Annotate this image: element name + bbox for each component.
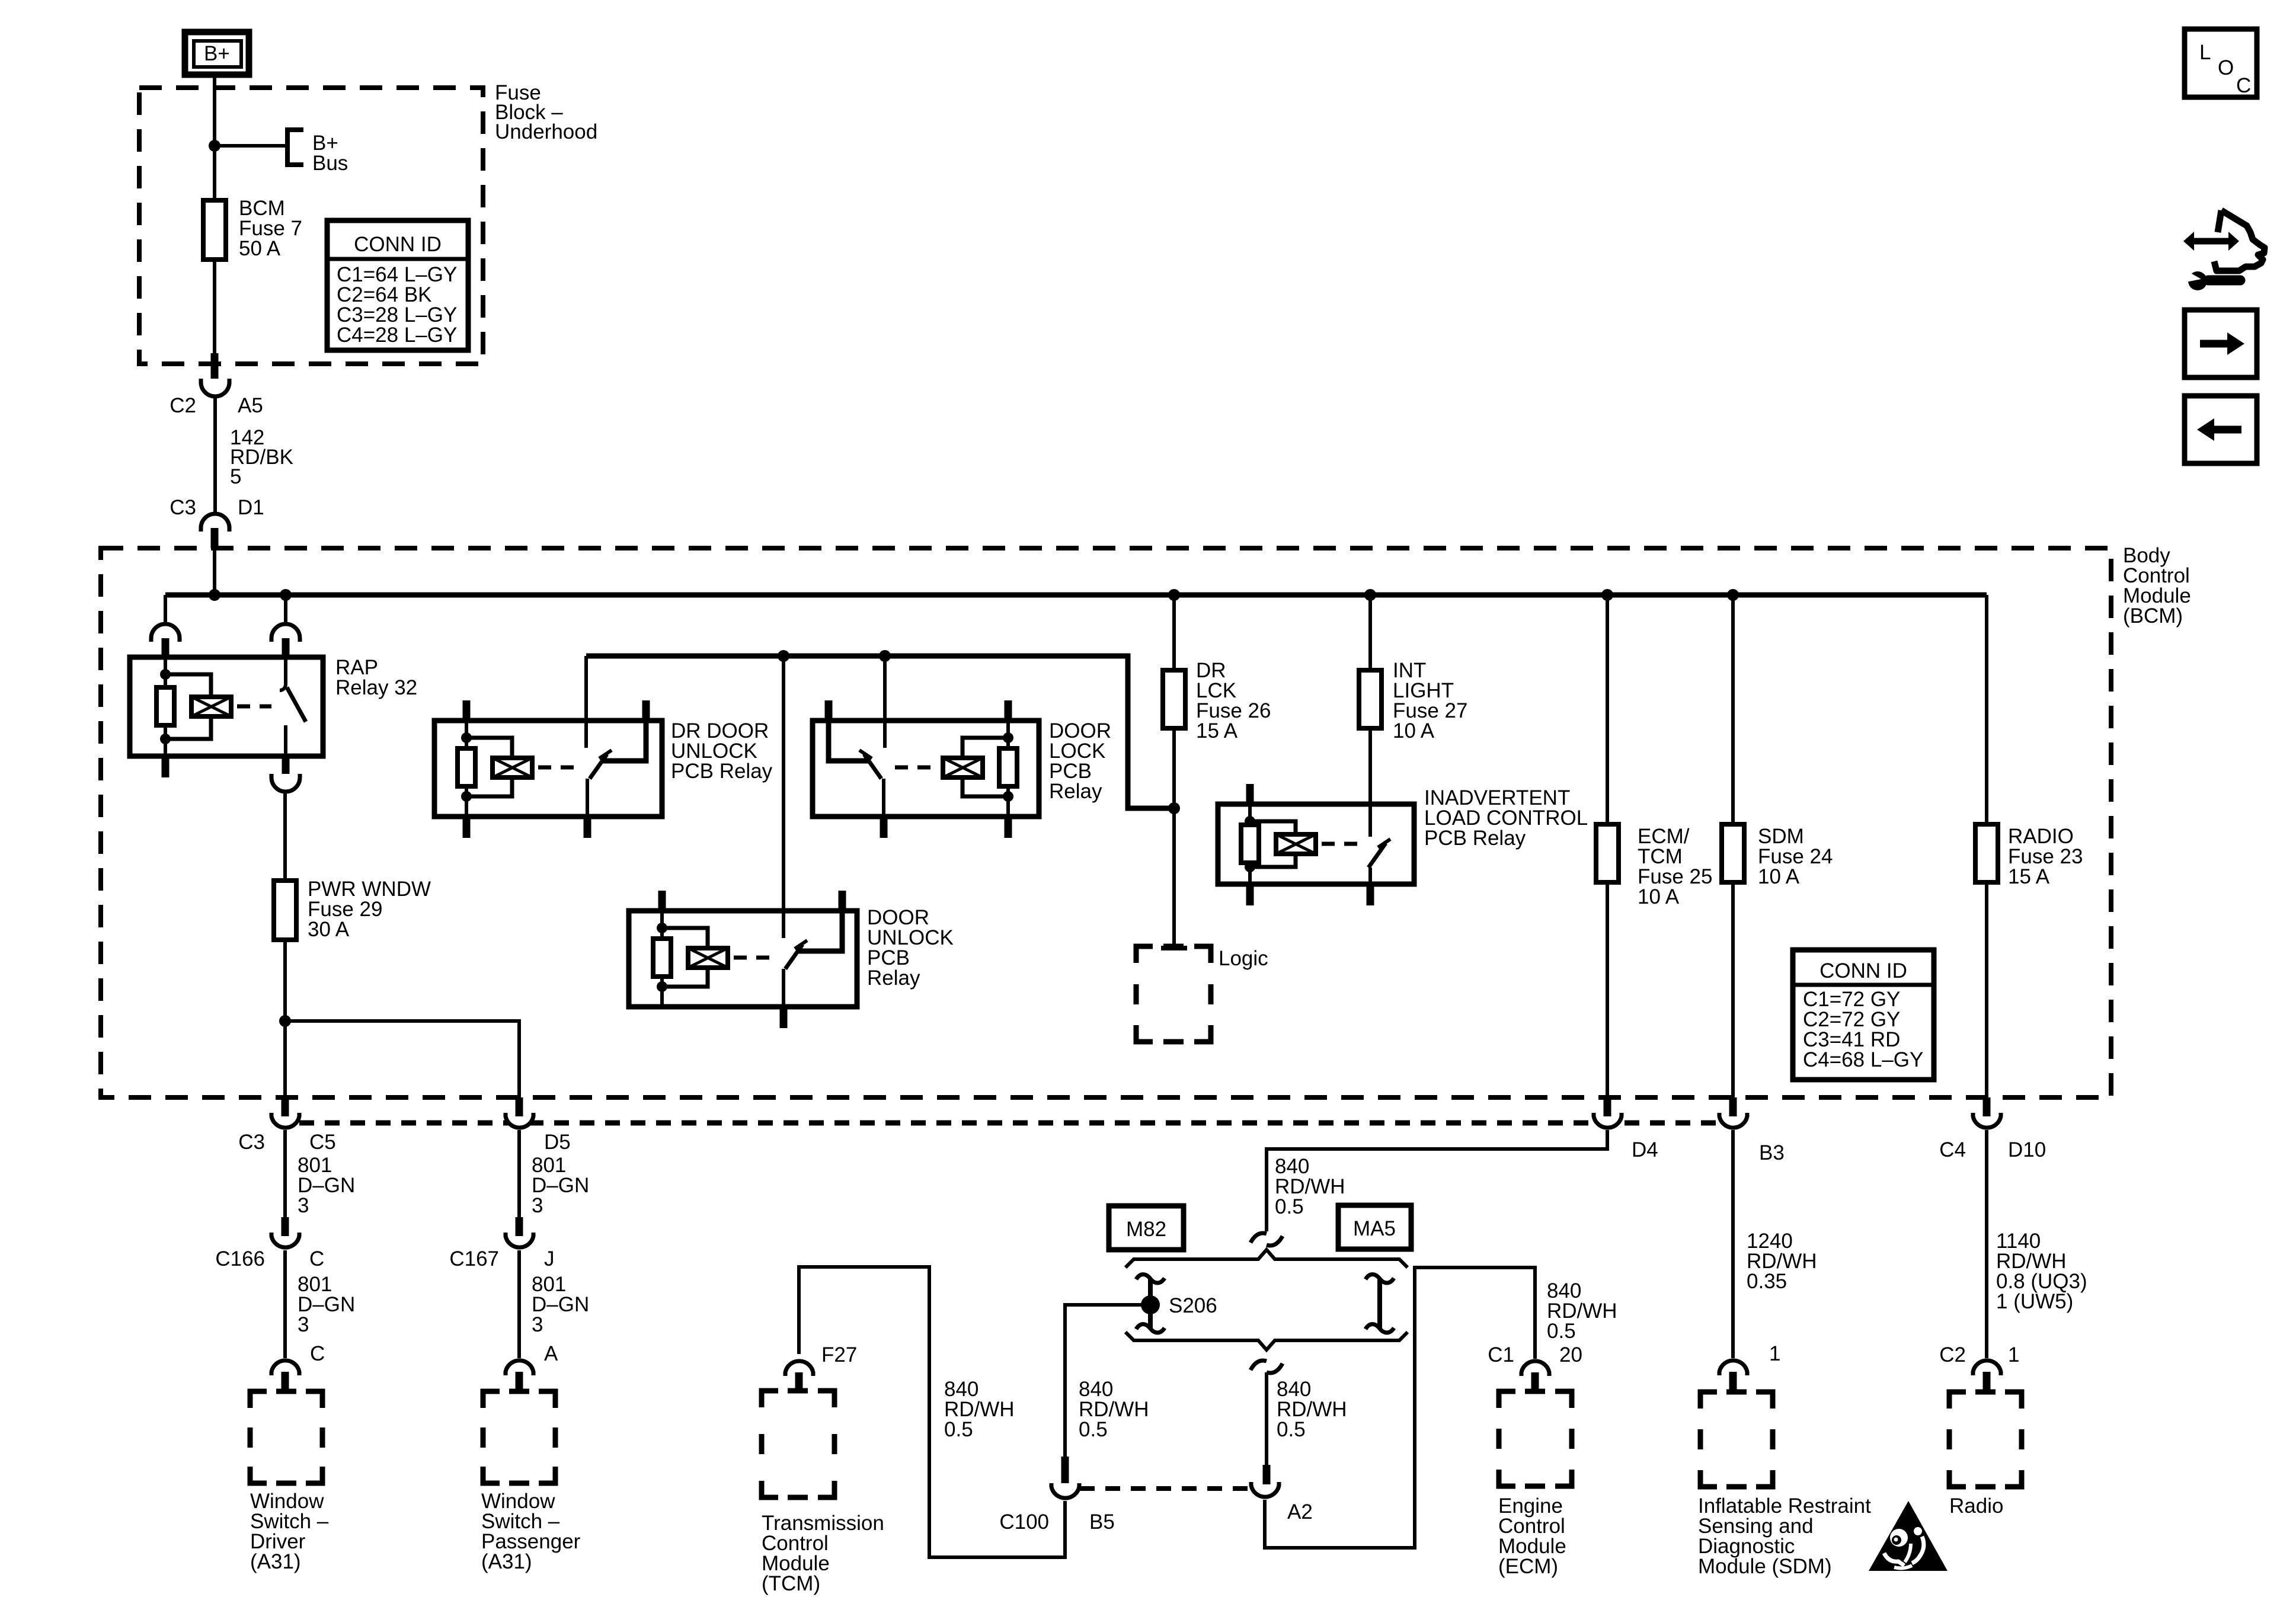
svg-text:0.5: 0.5 [1277, 1418, 1306, 1441]
DOOR LOCK mech link [895, 766, 937, 770]
DR DOOR UNLOCK mech link [538, 766, 582, 770]
svg-text:C2: C2 [1939, 1343, 1966, 1366]
RAP coil pin wire [164, 657, 167, 756]
connector D5 [506, 1113, 533, 1128]
connector cup RAP out [271, 774, 300, 792]
wire 801 D-GN lower right [517, 1250, 521, 1358]
svg-text:B+: B+ [204, 42, 230, 65]
wire fuse29 to C3/C5 [283, 940, 287, 1097]
wire fuse 25 drop [1606, 595, 1609, 824]
INADVERTENT bottom stubs [1246, 884, 1254, 905]
node bus/RAP junction [280, 589, 292, 601]
resistor RAP [156, 687, 174, 725]
wire fuse25 to D4 [1606, 882, 1609, 1097]
CONN ID table (BCM) [1793, 950, 1934, 1080]
svg-text:0.35: 0.35 [1747, 1270, 1787, 1293]
svg-text:A: A [544, 1342, 558, 1365]
wire D4 to splice bundle [1267, 1130, 1607, 1231]
svg-text:D1: D1 [238, 496, 264, 519]
INADVERTENT coil pin [1248, 804, 1252, 884]
wire fuse 24 drop [1731, 595, 1735, 824]
connector C2/A5 cup [201, 379, 229, 396]
svg-text:0.5: 0.5 [1079, 1418, 1108, 1441]
svg-text:0.5: 0.5 [944, 1418, 973, 1441]
svg-text:(BCM): (BCM) [2123, 604, 2183, 628]
svg-text:C4=28 L–GY: C4=28 L–GY [337, 324, 457, 347]
wire 801 D-GN upper right [517, 1130, 521, 1217]
switch DOOR LOCK [859, 750, 884, 817]
svg-text:(ECM): (ECM) [1498, 1555, 1558, 1578]
svg-text:CONN ID: CONN ID [1819, 959, 1907, 982]
resistor INADVERTENT [1241, 825, 1259, 863]
wire fuse 26 drop [1172, 595, 1176, 670]
relay DR DOOR UNLOCK PCB box [434, 721, 662, 817]
coil INADVERTENT [1276, 834, 1316, 854]
svg-text:C: C [309, 1247, 324, 1270]
svg-text:O: O [2218, 56, 2234, 79]
CONN ID table (fuse block) [327, 220, 468, 350]
connector cap RAP pin1 [151, 624, 180, 642]
node bus/fuse24 junction [1727, 589, 1739, 601]
svg-text:C2: C2 [170, 394, 196, 417]
svg-text:Bus: Bus [312, 152, 348, 175]
connector C167 [506, 1233, 533, 1247]
wire bundle to A2 [1265, 1372, 1268, 1465]
wire fuse23 to C4 [1985, 882, 1988, 1097]
INADVERTENT loop [1250, 821, 1296, 867]
DOOR LOCK loop [962, 738, 1008, 796]
svg-text:C100: C100 [999, 1510, 1049, 1534]
svg-text:A2: A2 [1287, 1500, 1313, 1523]
svg-text:3: 3 [532, 1194, 543, 1217]
DR DOOR UNLOCK pin stubs top [463, 700, 471, 721]
B+ terminal [185, 32, 249, 75]
DOOR UNLOCK L-wire [798, 911, 842, 951]
svg-text:Underhood: Underhood [495, 120, 597, 143]
DOOR UNLOCK coil pin [660, 911, 664, 1007]
relay INADVERTENT LOAD CONTROL box [1218, 804, 1414, 884]
svg-text:C5: C5 [309, 1131, 336, 1154]
airbag caution icon [1869, 1501, 1948, 1571]
wire bus to RAP pin 1 [164, 595, 167, 624]
data link icon [2183, 210, 2265, 271]
svg-text:3: 3 [298, 1194, 309, 1217]
wire sub-bus to DOOR UNLOCK switch [782, 656, 785, 938]
svg-text:30 A: 30 A [308, 918, 350, 941]
connector C3/C5 [271, 1113, 299, 1128]
svg-text:10 A: 10 A [1638, 885, 1680, 908]
fuse INT LIGHT Fuse 27 10 A [1359, 670, 1382, 728]
MA5 tag [1338, 1205, 1411, 1249]
connector D4 [1594, 1113, 1622, 1128]
svg-text:Relay: Relay [1049, 780, 1102, 803]
svg-text:50 A: 50 A [239, 237, 281, 260]
SDM dashed box [1700, 1392, 1773, 1487]
DOOR LOCK L-wire [829, 721, 869, 761]
wire A2 to ECM [1265, 1267, 1535, 1548]
svg-text:PCB Relay: PCB Relay [671, 760, 773, 783]
DR DOOR UNLOCK coil pin [465, 721, 468, 817]
node S206 [1141, 1295, 1160, 1314]
svg-text:1: 1 [1769, 1342, 1780, 1365]
LOC tag [2185, 29, 2257, 97]
wire main bus [165, 593, 1987, 598]
wire bus to RAP pin 2 [284, 595, 287, 624]
resistor DOOR UNLOCK [653, 939, 671, 977]
wire branch to D5 [285, 1021, 519, 1097]
connector C3/D1 stub [211, 528, 219, 548]
svg-text:C3: C3 [238, 1131, 265, 1154]
node bus/fuse26 junction [1168, 589, 1180, 601]
ECM dashed box [1499, 1391, 1572, 1486]
connector row dotted line [299, 1121, 1719, 1126]
svg-text:1 (UW5): 1 (UW5) [1996, 1290, 2073, 1313]
fuse DR LCK Fuse 26 15 A [1163, 670, 1185, 728]
switch RAP [280, 657, 306, 756]
wire 142 RD/BK [213, 396, 217, 514]
Window Switch Driver dashed box [250, 1391, 322, 1483]
wire B5 riser to S206 [1065, 1305, 1150, 1457]
svg-text:A5: A5 [238, 394, 263, 417]
DR DOOR UNLOCK L-wire [602, 721, 646, 761]
wire B3 to SDM [1731, 1130, 1735, 1358]
INADVERTENT mech link [1322, 842, 1363, 846]
splice S206 bar [1136, 1275, 1165, 1333]
fuse block underhood dashed box [139, 88, 483, 364]
fuse RADIO Fuse 23 15 A [1975, 824, 1998, 882]
DOOR LOCK pin stubs top [825, 700, 833, 721]
relay DOOR LOCK PCB box [813, 721, 1039, 817]
back arrow tag [2185, 396, 2257, 463]
wire into BCM [213, 548, 216, 595]
fuse PWR WNDW Fuse 29 30 A [274, 881, 296, 940]
DOOR LOCK bottom stubs [880, 817, 888, 838]
svg-text:B5: B5 [1089, 1510, 1115, 1534]
wire fuse 27 drop [1368, 595, 1372, 670]
wire break lower [1251, 1361, 1267, 1370]
wire sub-bus to DR DOOR UNLOCK switch [584, 656, 588, 748]
svg-text:L: L [2199, 41, 2211, 64]
DOOR UNLOCK mech link [734, 956, 778, 960]
svg-text:Relay 32: Relay 32 [335, 676, 417, 699]
wire 801 D-GN lower left [283, 1250, 287, 1358]
node fuse29 branch [279, 1015, 291, 1027]
svg-text:MA5: MA5 [1353, 1217, 1396, 1240]
svg-text:C: C [310, 1342, 325, 1365]
coil DR DOOR UNLOCK [493, 758, 532, 777]
coil DOOR LOCK [943, 758, 983, 777]
forward arrow tag [2185, 310, 2257, 377]
wire to B+ bus [215, 144, 287, 148]
M82 tag [1109, 1206, 1184, 1250]
resistor DR DOOR UNLOCK [458, 748, 475, 786]
svg-text:C166: C166 [215, 1247, 265, 1270]
svg-text:M82: M82 [1126, 1218, 1166, 1241]
wire 801 D-GN upper left [283, 1130, 287, 1217]
connector C166 [271, 1233, 299, 1247]
switch DR DOOR UNLOCK [587, 750, 612, 817]
svg-text:C3: C3 [170, 496, 196, 519]
DOOR UNLOCK bottom stub [780, 1007, 788, 1028]
svg-text:0.5: 0.5 [1275, 1195, 1304, 1218]
wire fuse 23 drop [1985, 595, 1988, 824]
DR DOOR UNLOCK bottom stubs [463, 817, 471, 838]
svg-text:C4: C4 [1939, 1138, 1966, 1161]
DOOR UNLOCK loop [662, 928, 708, 987]
svg-text:Relay: Relay [867, 966, 920, 990]
BCM dashed box [101, 548, 2111, 1097]
svg-text:(TCM): (TCM) [762, 1572, 820, 1595]
svg-text:1: 1 [2008, 1343, 2019, 1366]
svg-text:5: 5 [230, 465, 241, 488]
svg-text:C1: C1 [1488, 1343, 1514, 1366]
splice bundle bottom brace [1125, 1332, 1408, 1350]
Logic dashed box [1136, 946, 1268, 1042]
wire TCM F27 loop [799, 1267, 1065, 1557]
fuse BCM Fuse 7 50 A [203, 200, 226, 260]
node bus/C3 junction [209, 589, 220, 601]
svg-text:B3: B3 [1759, 1141, 1785, 1164]
splice bundle right bar [1366, 1275, 1394, 1333]
connector B3 [1719, 1113, 1747, 1128]
resistor DOOR LOCK [999, 748, 1017, 786]
svg-text:10 A: 10 A [1758, 865, 1800, 888]
connector C4/D10 [1973, 1113, 2001, 1128]
connector cap RAP pin2 [271, 624, 300, 642]
svg-text:Module (SDM): Module (SDM) [1698, 1555, 1832, 1578]
wire sub-bus to DOOR LOCK switch [883, 656, 887, 748]
wire C4 to radio [1985, 1130, 1988, 1358]
splice bundle top brace [1125, 1250, 1408, 1267]
switch INADVERTENT [1368, 839, 1390, 884]
TCM dashed box [762, 1391, 834, 1497]
relay RAP Relay 32 box [130, 657, 323, 756]
relay DOOR UNLOCK PCB box [629, 911, 857, 1007]
svg-text:3: 3 [532, 1313, 543, 1336]
INADVERTENT top stub [1246, 784, 1254, 804]
RAP pin3 stub (nc) [162, 756, 170, 777]
svg-text:CONN ID: CONN ID [354, 233, 442, 256]
svg-text:20: 20 [1559, 1343, 1582, 1366]
svg-text:3: 3 [298, 1313, 309, 1336]
svg-text:C: C [2236, 74, 2251, 97]
svg-text:0.5: 0.5 [1547, 1320, 1576, 1343]
svg-text:(A31): (A31) [481, 1550, 532, 1573]
wire B+ feed vertical [213, 75, 216, 353]
svg-text:D4: D4 [1632, 1138, 1658, 1161]
wire fuse26 to logic [1172, 728, 1176, 946]
svg-text:J: J [544, 1247, 555, 1270]
connector C2/A5 stub [211, 353, 219, 382]
fuse ECM/TCM Fuse 25 10 A [1596, 824, 1619, 882]
Radio dashed box [1949, 1392, 2022, 1487]
dashed C100 link [1080, 1486, 1250, 1491]
wrench icon [2183, 270, 2240, 290]
fuse SDM Fuse 24 10 A [1722, 824, 1744, 882]
DOOR UNLOCK pin stubs top [658, 891, 666, 911]
svg-text:15 A: 15 A [2008, 865, 2050, 888]
svg-text:D5: D5 [544, 1131, 571, 1154]
wire break upper [1251, 1233, 1267, 1243]
connector A2 [1251, 1482, 1279, 1497]
coil RAP [191, 697, 231, 716]
node fuse26 sub-bus junction [1168, 802, 1180, 814]
svg-text:Logic: Logic [1219, 947, 1268, 970]
svg-text:D10: D10 [2008, 1138, 2046, 1161]
wire RAP to fuse 29 [283, 792, 287, 881]
svg-text:S206: S206 [1169, 1294, 1217, 1317]
node sub-bus door unlock [778, 650, 789, 662]
Window Switch Passenger dashed box [483, 1391, 555, 1483]
B+ bus terminal [287, 130, 303, 165]
svg-text:(A31): (A31) [250, 1550, 301, 1573]
connector C100 B5 [1051, 1483, 1079, 1498]
svg-text:C167: C167 [449, 1247, 499, 1270]
RAP mechanical link [237, 705, 271, 709]
node bus/fuse27 junction [1364, 589, 1376, 601]
svg-text:Radio: Radio [1949, 1494, 2003, 1518]
svg-text:C4=68 L–GY: C4=68 L–GY [1803, 1048, 1923, 1071]
sub-bus door relays [586, 656, 1174, 808]
wire fuse27 to inadvertent relay [1368, 728, 1372, 837]
DR DOOR UNLOCK loop [466, 738, 512, 796]
svg-text:15 A: 15 A [1196, 719, 1238, 742]
node bus/fuse25 junction [1601, 589, 1613, 601]
coil DOOR UNLOCK [688, 948, 728, 968]
node sub-bus door lock [879, 650, 891, 662]
svg-text:F27: F27 [821, 1343, 857, 1366]
node B+ bus junction [209, 140, 220, 152]
svg-text:10 A: 10 A [1393, 719, 1435, 742]
RAP pin4 stub [282, 756, 290, 777]
wire fuse24 to B3 [1731, 882, 1735, 1097]
RAP coil loop wire [165, 674, 211, 739]
DOOR LOCK coil pin [1006, 721, 1010, 817]
svg-text:PCB Relay: PCB Relay [1424, 827, 1526, 850]
switch DOOR UNLOCK [784, 940, 807, 1007]
